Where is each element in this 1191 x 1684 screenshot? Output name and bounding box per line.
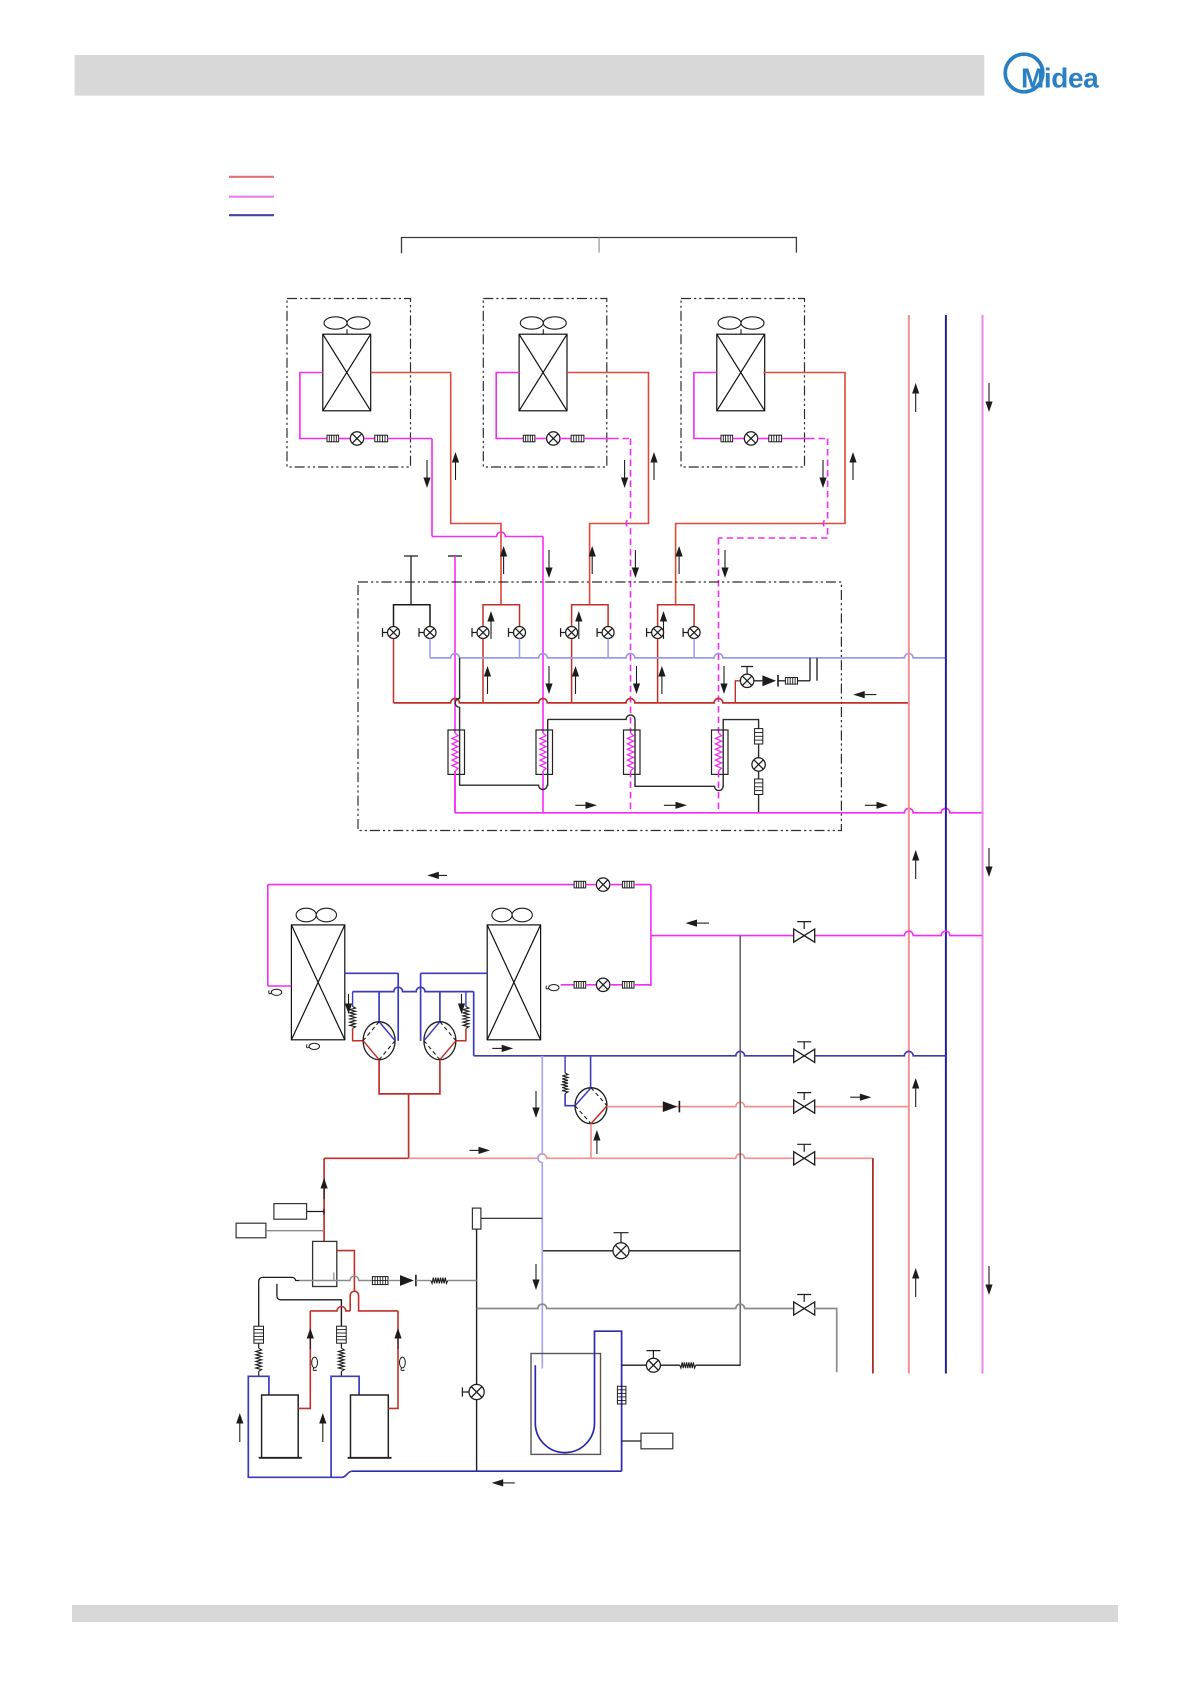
filter B2 [622, 982, 634, 989]
branch 4 header tee [658, 605, 695, 633]
wire oil balance line [542, 1250, 740, 1252]
oil drain line [277, 1284, 281, 1300]
flow arrow up (hot gas riser) [653, 461, 655, 480]
vibration absorber 2 [463, 1007, 469, 1029]
wire subcool circuit HX1 feed from suction bus [455, 658, 459, 730]
flow arrow right on liquid header [664, 804, 678, 806]
wire liquid inlet HX-A [268, 985, 292, 987]
wire B2 [610, 984, 623, 986]
flow arrow up (hot gas riser) [455, 461, 457, 480]
filter on subcool return [755, 729, 763, 744]
service valve oil equalize [794, 1302, 815, 1315]
service port HX-A inlet [271, 989, 281, 995]
capillary oil return [431, 1278, 448, 1284]
wire hot-gas line unit1 to branch [371, 373, 501, 605]
wire HR to riser corner [634, 884, 651, 886]
flow arrow up in branch box [578, 620, 580, 639]
flow arrow right on liquid header [575, 804, 588, 806]
solenoid accumulator oil return [646, 1358, 660, 1372]
filter drier module 1 (left) [327, 435, 339, 442]
wire module 2 [560, 438, 571, 440]
service port under HX-A [309, 1043, 319, 1049]
flow arrow down (liquid drop) [822, 460, 824, 479]
wire liquid line module 2 (left drop) [496, 373, 523, 439]
subcooler plate HX 3 shell [624, 730, 641, 774]
subcooler plate HX 1 shell [448, 730, 465, 774]
wire subcool return 2 [758, 771, 760, 779]
compressor 1 (inverter) [363, 1022, 395, 1060]
flow arrow up between buses [575, 675, 577, 694]
wire injection 1 red [353, 1028, 364, 1040]
wire liquid through HX 3 (dashed) [630, 771, 632, 813]
filter on accumulator outlet [617, 1386, 626, 1404]
fan pair module 3 [718, 317, 741, 329]
flow arrow left suction return [501, 1482, 515, 1484]
wire liquid line unit1 to subcooler [388, 438, 432, 440]
check valve equalize [762, 675, 776, 686]
oil return line [259, 1277, 300, 1326]
main suction riser (navy) [945, 315, 947, 1374]
wire oil equalize end [814, 1309, 837, 1373]
tank2 suction loop [331, 1376, 359, 1477]
subcooler HX 1 refrigerant coil [452, 733, 458, 771]
service valve discharge [794, 1100, 815, 1113]
wire suction to compressor 1 [378, 992, 380, 1022]
wire 4wv top port [590, 1056, 592, 1088]
wire suction HX-A [345, 972, 398, 974]
wire capillary to equalize drop [696, 1364, 741, 1366]
filter equalize [785, 678, 797, 685]
solenoid valve subcool return [752, 758, 765, 771]
branch 1 wire to suction bus [429, 639, 431, 658]
wire equalize [754, 680, 763, 682]
wire oil return 2 [388, 1280, 400, 1282]
branch 2 gas valve [472, 628, 477, 637]
flow arrow right on liquid header [865, 804, 879, 806]
wire HX1 outlet [454, 771, 456, 813]
footer bar [72, 1605, 1118, 1622]
flow arrow right on hot gas [470, 1149, 482, 1151]
wire oil return 3 [416, 1280, 431, 1282]
wire injection 1 [352, 992, 354, 1007]
flow arrow down between buses [548, 666, 550, 685]
filter module 2 (right) [571, 435, 584, 442]
compressor tank 1 suction chain [254, 1326, 264, 1343]
discharge manifold [379, 1060, 440, 1094]
wire liquid line unit2 (dashed) to subcooler [584, 438, 612, 440]
oil level sensor body [472, 1208, 481, 1229]
service port HX-B [549, 985, 559, 991]
fan pair module 1 [324, 317, 347, 329]
subcooler plate HX 2 shell [536, 730, 553, 774]
vibration absorber 4wv [562, 1073, 568, 1094]
heat exchanger A coil [291, 925, 344, 1040]
branch 4 liquid valve [683, 628, 688, 637]
branch 4 wire to suction bus [693, 639, 695, 658]
oil separator vessel [313, 1241, 337, 1286]
filter drier module 3 (left) [721, 435, 733, 442]
wire module 1 [364, 438, 375, 440]
expansion valve HR [596, 878, 609, 891]
oil filter (grid) [372, 1277, 388, 1285]
branch 1 liquid valve [419, 628, 424, 637]
main liquid riser (salmon) [908, 315, 910, 1374]
branch controller enclosure [358, 582, 841, 831]
outdoor heat-exchanger module 3 enclosure [681, 299, 805, 468]
solenoid valve equalize [740, 674, 753, 687]
expansion valve module 2 [547, 432, 560, 445]
flow arrow down on hot-gas riser [988, 383, 990, 403]
oil sensor box accumulator [641, 1433, 673, 1449]
air heat exchanger coil module 2 [519, 334, 567, 411]
flow arrow up tank1 [239, 1422, 241, 1442]
flow arrow up oil-sep feed [323, 1187, 325, 1199]
tank1 suction loop [248, 1376, 352, 1477]
wire HR [586, 884, 597, 886]
flow arrow up on liquid riser [915, 1087, 917, 1107]
flow arrow up between buses [661, 675, 663, 694]
flow arrow up on liquid riser [915, 392, 917, 412]
branch 1 wire to liquid bus [393, 639, 395, 703]
service valve suction header [794, 1049, 815, 1062]
wire oil-sep discharge [337, 1251, 355, 1292]
wire HP switch [266, 1230, 324, 1232]
expansion valve module 3 [744, 432, 757, 445]
flow arrow up on liquid riser [915, 1277, 917, 1297]
flow arrow up in branch box [663, 620, 665, 639]
suction manifold [353, 987, 474, 991]
flow arrow down accumulator inlet 2 [535, 1264, 537, 1281]
wire subcool circuit HX3 to HX4 [635, 719, 759, 790]
wire accumulator inlet [538, 1056, 542, 1369]
expansion valve B [596, 978, 609, 991]
flow arrow down (liquid drop) [624, 460, 626, 479]
wire equalize 3 [798, 680, 811, 682]
suction header to main [474, 1051, 946, 1055]
filter 2 on subcool return [755, 779, 763, 795]
HP sensor box [274, 1204, 307, 1220]
oil equalize line [477, 1304, 795, 1308]
flow arrow right under HX-B [492, 1047, 504, 1049]
check valve on discharge [663, 1101, 678, 1112]
wire injection 2 [465, 992, 467, 1007]
wire equalize drop [739, 936, 741, 1366]
wire heat-recovery liquid line [268, 884, 574, 886]
compressor tank 2 suction chain [337, 1326, 347, 1343]
wire B [586, 984, 597, 986]
check valve oil return [400, 1275, 414, 1286]
wire HR 2 [610, 884, 623, 886]
branch 3 wire to suction bus [607, 639, 609, 658]
main hot-gas riser (violet) [982, 315, 984, 1374]
wire to capillary [660, 1364, 679, 1366]
accumulator U-tube [535, 1331, 621, 1471]
flow arrow right on discharge [850, 1096, 862, 1098]
header bar [75, 55, 985, 96]
capillary accumulator [680, 1362, 696, 1368]
flow arrow down accumulator inlet 1 [535, 1091, 537, 1109]
wire liquid through HX 1 [454, 771, 456, 813]
flow arrow down at injection 1 [348, 994, 350, 1005]
flow arrow left on liquid line [436, 874, 447, 876]
flow arrow down between buses [636, 666, 638, 685]
air heat exchanger coil module 1 [323, 334, 371, 411]
subcooler HX 4 refrigerant coil [716, 733, 722, 771]
air heat exchanger coil module 3 [717, 334, 765, 411]
service port tank1 [312, 1357, 318, 1368]
wire injection 2 red [456, 1028, 466, 1040]
flow arrow down (liquid feed) [634, 550, 636, 569]
subcooler HX 2 refrigerant coil [540, 733, 546, 771]
capped service tee T2 cap [448, 555, 462, 557]
heat exchanger B coil [487, 925, 540, 1040]
plate heat exchanger B fans [492, 908, 512, 922]
legend line liquid (red) [229, 176, 274, 178]
wire module 3 [758, 438, 769, 440]
hot gas line left [324, 1157, 409, 1159]
wire oil return accumulator [622, 1364, 647, 1366]
wire subcool circuit HX1 to HX2 [460, 719, 548, 789]
flow arrow down on hot-gas riser [988, 1266, 990, 1286]
branch 4 gas valve [647, 628, 652, 637]
flow arrow up 4wv bottom [596, 1139, 598, 1154]
wire 4wv left port [565, 1094, 575, 1106]
flow arrow down (liquid drop) [426, 460, 428, 479]
wire liquid line module 3 (left drop) [694, 373, 721, 439]
fan pair module 2 [520, 317, 543, 329]
filter HR (left) [574, 881, 586, 888]
flow arrow up tank2 [322, 1422, 324, 1442]
field pipe (dark red) [872, 1158, 874, 1373]
hot gas line right [409, 1154, 873, 1158]
flow arrow up between buses [487, 675, 489, 694]
wire suction HX-B [421, 972, 488, 974]
discharge bus [310, 1307, 350, 1311]
branch 2 wire to liquid bus [482, 639, 484, 703]
branch 3 gas valve [561, 628, 566, 637]
filter drier module 2 (left) [523, 435, 535, 442]
wire sensor drop [476, 1229, 478, 1471]
flow arrow down (liquid feed) [548, 550, 550, 569]
flow arrow up (branch feed) [503, 555, 505, 574]
Midea logo [1005, 54, 1043, 92]
suction bus (blue) [430, 654, 946, 658]
oil separator dip tube [333, 1273, 335, 1282]
branch 2 wire to suction bus [519, 639, 521, 658]
wire oil return 4 [448, 1280, 477, 1282]
wire 4wv left spring feed [564, 1056, 566, 1073]
wire 4wv bottom port [590, 1124, 592, 1159]
plate heat exchanger A fans [296, 908, 316, 922]
wire HP sensor [307, 1209, 325, 1215]
vibration absorber 1 [350, 1007, 356, 1029]
filter module 3 (right) [769, 435, 782, 442]
subcooler plate HX 4 shell [712, 730, 729, 774]
flow arrow down at injection 2 [461, 994, 463, 1005]
compressor 2 (inverter) [424, 1022, 456, 1060]
branch 2 liquid valve [509, 628, 514, 637]
service port tank2 [400, 1357, 406, 1368]
wire HR branch to hot-gas main [651, 931, 982, 935]
branch 3 liquid valve [597, 628, 602, 637]
wire sensor to suction [481, 1217, 542, 1219]
service valve on HR branch [794, 929, 815, 942]
wire liquid line unit3 (dashed) to subcooler [782, 438, 808, 440]
subcooler HX 3 refrigerant coil [628, 733, 634, 771]
flow arrow up (hot gas riser) [852, 461, 854, 480]
svg-text:Midea: Midea [1021, 63, 1099, 94]
branch 3 header tee [572, 605, 609, 633]
flow arrow left on HR branch [695, 922, 710, 924]
flow arrow up tank1 discharge [309, 1337, 311, 1349]
outdoor heat-exchanger module 2 enclosure [483, 299, 607, 468]
branch 3 wire to liquid bus [571, 639, 573, 703]
tank2 discharge [388, 1311, 398, 1409]
flow arrow down on hot-gas riser [988, 848, 990, 868]
4-way reversing valve [575, 1088, 607, 1124]
wire liquid header from T2 [454, 556, 456, 733]
flow arrow down between buses [723, 666, 725, 685]
wire equalize from liquid bus [735, 681, 740, 703]
connector bars to suction bus [810, 658, 817, 681]
flow arrow up (branch feed) [591, 555, 593, 574]
solenoid oil balance [613, 1243, 629, 1259]
accumulator shell [531, 1354, 601, 1455]
bracket over outdoor units [402, 238, 797, 254]
flow arrow down (liquid feed) [724, 550, 726, 569]
legend line suction (blue) [229, 214, 274, 216]
legend line HP gas (magenta) [229, 196, 274, 198]
wire subcool return [758, 744, 760, 758]
wire subcool return to liquid header [758, 795, 760, 813]
wire hot-gas line unit3 to branch [676, 373, 845, 605]
wire liquid through HX 4 (dashed) [718, 771, 720, 813]
wire B3 [634, 984, 651, 986]
outdoor heat-exchanger module 1 enclosure [287, 299, 411, 468]
wire liquid line module 1 (left drop) [300, 373, 327, 439]
wire liquid through HX 2 [542, 771, 544, 813]
capped service tee T1 [404, 556, 418, 605]
flow arrow up in branch box [490, 620, 492, 639]
branch 1 gas valve [383, 628, 388, 637]
wire liquid HX-B with service chain [561, 984, 575, 986]
liquid bus (red) [394, 699, 909, 703]
filter HR (right) [622, 881, 634, 888]
wire module 3 [733, 438, 745, 440]
flow arrow up tank2 discharge [397, 1337, 399, 1349]
expansion valve module 1 [350, 432, 363, 445]
wire suction to compressor 2 [439, 992, 441, 1022]
branch 2 header tee [483, 605, 520, 633]
filter B1 [574, 982, 586, 989]
compressor tank 2 shell [351, 1395, 389, 1458]
flow arrow up (branch feed) [678, 555, 680, 574]
tank1 discharge [298, 1311, 310, 1409]
wire 4wv right port to liquid main [607, 1102, 909, 1106]
liquid header (magenta bus) [455, 808, 983, 812]
flow arrow left above liquid bus [862, 694, 876, 696]
service valve hot-gas [794, 1152, 815, 1165]
HP switch box [236, 1223, 266, 1238]
wire hot-gas line unit2 to branch [567, 373, 649, 605]
wire equalize 2 [778, 680, 785, 682]
solenoid oil return [469, 1384, 484, 1399]
flow arrow up on liquid riser [915, 859, 917, 879]
wire module 2 [535, 438, 547, 440]
filter module 1 (right) [375, 435, 388, 442]
branch 4 wire to liquid bus [657, 639, 659, 703]
compressor tank 1 shell [262, 1395, 299, 1458]
wire module 1 [339, 438, 351, 440]
branch 1 header tee [394, 605, 431, 633]
suction return line [352, 1470, 622, 1472]
